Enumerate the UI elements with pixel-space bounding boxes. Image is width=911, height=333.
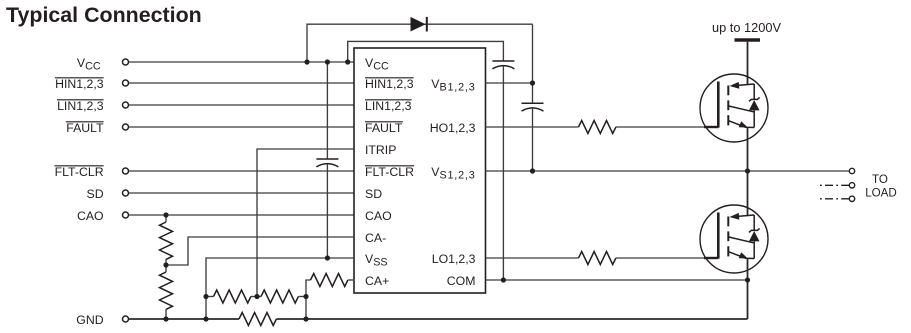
svg-text:ITRIP: ITRIP: [365, 143, 396, 157]
node HIN1,2,3 label: [55, 77, 104, 91]
terminal TO LOAD phase: [849, 168, 854, 173]
svg-text:FLT-CLR: FLT-CLR: [55, 165, 104, 179]
diode D1 bootstrap: [411, 17, 427, 32]
wire GND rail left: [129, 318, 239, 320]
wire bus to Q1 collector: [747, 42, 749, 85]
junction VSS-C3: [325, 255, 330, 260]
svg-text:SD: SD: [365, 187, 382, 201]
wire CA+ branch: [306, 280, 311, 319]
capacitor C2 (bootstrap VB-VS): [522, 83, 544, 171]
junction CA+ branch-mid line: [303, 294, 308, 299]
junction CA+ branch-GND: [303, 316, 308, 321]
wire HIN to IC: [129, 82, 354, 84]
label TO LOAD: [865, 173, 897, 200]
wire R2 to lower gate: [616, 257, 718, 259]
terminal load 3: [849, 196, 854, 201]
svg-text:FLT-CLR: FLT-CLR: [365, 165, 414, 179]
terminal CAO: [123, 212, 129, 218]
wire VCC terminal to IC: [129, 61, 354, 63]
svg-text:CA-: CA-: [365, 231, 386, 245]
wire VS to Q2 collector: [747, 171, 749, 216]
node FLT-CLR label: [55, 165, 104, 179]
junction VSS branch-GND: [203, 316, 208, 321]
pin FAULT (IC): [365, 121, 403, 135]
svg-text:CAO: CAO: [365, 209, 392, 223]
resistor R2 (LO gate): [579, 252, 616, 265]
svg-text:Typical Connection: Typical Connection: [6, 3, 202, 27]
svg-text:FAULT: FAULT: [66, 121, 104, 135]
svg-text:FAULT: FAULT: [365, 121, 403, 135]
wire ITRIP network: [257, 149, 354, 297]
capacitor C3 (VCC to VSS): [316, 62, 338, 258]
capacitor C1 (VCC decoupling, top plates): [492, 61, 514, 69]
resistor R7 (CA+): [311, 274, 355, 287]
node FAULT label: [66, 121, 104, 135]
terminal SD: [123, 190, 129, 196]
terminal LIN1,2,3: [123, 102, 129, 108]
wire dashed load line 2: [817, 198, 849, 200]
svg-text:TO: TO: [872, 173, 888, 186]
terminal FAULT: [123, 124, 129, 130]
wire C1 to COM: [502, 66, 504, 280]
junction VCC-C3: [325, 59, 330, 64]
wire LO from IC to gate resistor: [486, 257, 579, 259]
svg-text:VCC: VCC: [77, 56, 101, 73]
resistor R4 (CAO divider lower): [160, 265, 173, 319]
wire LIN to IC: [129, 104, 354, 106]
pin HIN1,2,3 (IC): [365, 77, 414, 91]
resistor R3 (CAO divider upper): [160, 215, 173, 265]
resistor R6 (mid network right): [257, 290, 306, 303]
wire CAO to IC: [129, 214, 354, 216]
junction VSS branch-mid line: [203, 294, 208, 299]
wire FAULT to IC: [129, 126, 354, 128]
wire VB from IC: [486, 82, 533, 84]
node LIN1,2,3 label: [57, 99, 104, 113]
wire COM from IC: [486, 279, 748, 281]
junction divider tap: [163, 262, 168, 267]
wire diode cathode down to VB: [532, 24, 534, 83]
terminal VCC: [123, 59, 129, 65]
svg-text:LIN1,2,3: LIN1,2,3: [365, 99, 412, 113]
junction VCC-C1 branch: [345, 59, 350, 64]
transistor Q2 (low-side IGBT): [700, 205, 768, 273]
junction COM-C1: [501, 277, 506, 282]
wire VS rail: [486, 170, 850, 172]
junction VS-Q1 emitter: [745, 168, 750, 173]
junction CAO-R3: [163, 212, 168, 217]
svg-text:HIN1,2,3: HIN1,2,3: [365, 77, 414, 91]
pin LIN1,2,3 (IC): [365, 99, 412, 113]
junction ITRIP-mid line: [254, 294, 259, 299]
wire GND rail right: [276, 318, 747, 320]
svg-text:LO1,2,3: LO1,2,3: [432, 252, 476, 266]
resistor R1 (HO gate): [579, 121, 616, 134]
wire R1 to upper gate: [616, 126, 718, 128]
resistor R8 (GND line): [239, 313, 276, 326]
pin FLT-CLR (IC): [365, 165, 414, 179]
wire VSS to bottom network: [206, 258, 354, 319]
terminal load 2: [849, 183, 854, 188]
wire FLT-CLR to IC: [129, 170, 354, 172]
wire HO from IC to gate resistor: [486, 126, 579, 128]
svg-text:CA+: CA+: [365, 274, 389, 288]
svg-text:up to 1200V: up to 1200V: [712, 20, 781, 35]
terminal FLT-CLR: [123, 168, 129, 174]
IC U1 box: [354, 48, 486, 293]
svg-text:SD: SD: [87, 187, 104, 201]
svg-text:HIN1,2,3: HIN1,2,3: [55, 77, 104, 91]
wire VCC to decoupling branch: [348, 41, 504, 62]
terminal GND: [123, 316, 129, 322]
junction VB-C2: [530, 80, 535, 85]
junction COM-Q2 emitter: [745, 277, 750, 282]
resistor R5 (mid network left): [206, 290, 257, 303]
wire bootstrap top rail: [307, 24, 533, 62]
wire SD to IC: [129, 192, 354, 194]
junction R4-GND: [163, 316, 168, 321]
terminal HIN1,2,3: [123, 80, 129, 86]
svg-text:LOAD: LOAD: [865, 187, 897, 200]
transistor Q1 (high-side IGBT): [700, 74, 768, 142]
wire Q1 emitter to VS rail: [747, 128, 749, 172]
wire dashed load line 1: [817, 184, 849, 186]
svg-text:GND: GND: [76, 313, 103, 327]
wire Q2 emitter to COM/GND: [747, 259, 749, 320]
svg-text:COM: COM: [447, 274, 476, 288]
junction VS-C2: [530, 168, 535, 173]
svg-text:CAO: CAO: [77, 209, 104, 223]
svg-text:HO1,2,3: HO1,2,3: [430, 121, 476, 135]
junction VCC-bootstrap: [304, 59, 309, 64]
svg-text:LIN1,2,3: LIN1,2,3: [57, 99, 104, 113]
DC bus bar: [735, 38, 761, 41]
wire CA- to divider tap: [166, 237, 354, 265]
